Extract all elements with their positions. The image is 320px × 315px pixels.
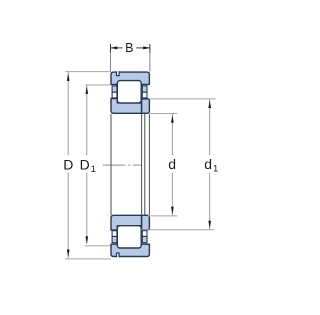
- d1 arrow down: [208, 221, 211, 229]
- wire: inner-ring raceway / loose ring joint edge: [141, 114, 143, 215]
- bore silhouette verticals between sections: [111, 114, 149, 215]
- outer ring notch: [117, 71, 120, 75]
- inner ring (top section): [111, 99, 142, 114]
- d arrow down: [171, 207, 174, 215]
- centerline (bearing axis, dash-dot): [103, 164, 141, 166]
- B tick right: [149, 44, 151, 53]
- d1 extension line top: [150, 98, 215, 100]
- d dimension line: [171, 114, 173, 155]
- svg-text:1: 1: [91, 164, 96, 175]
- B arrow left: [111, 46, 118, 49]
- B extension line right: [149, 53, 151, 72]
- outer ring (top section): [111, 72, 149, 84]
- D extension line bottom: [65, 258, 111, 260]
- d1 arrow up: [208, 101, 211, 109]
- B dimension line: [111, 47, 150, 49]
- svg-text:D: D: [63, 156, 73, 172]
- B arrow right: [143, 46, 150, 49]
- D arrow down: [67, 250, 70, 258]
- d extension line top: [150, 113, 177, 115]
- wire: left face bore edge: [110, 114, 112, 215]
- bottom section = mirror: [111, 215, 149, 257]
- wire: inner-ring recess edge: [144, 114, 146, 215]
- cage left (top section): [112, 86, 117, 92]
- B tick left: [110, 44, 112, 53]
- D1 extension line top: [85, 84, 110, 86]
- d1 dimension line: [209, 99, 211, 155]
- svg-text:D: D: [80, 156, 90, 172]
- svg-text:1: 1: [213, 163, 218, 174]
- roller (top section): [117, 81, 141, 103]
- d extension line bottom: [148, 215, 177, 217]
- svg-text:B: B: [125, 41, 133, 55]
- D1 arrow up: [86, 86, 89, 94]
- D arrow up: [67, 73, 70, 81]
- D dimension line: [67, 72, 69, 155]
- svg-text:d: d: [204, 156, 212, 172]
- cage right (top section): [142, 86, 147, 92]
- d1 extension line bottom: [142, 229, 215, 231]
- B extension line left: [110, 53, 112, 72]
- d arrow up: [171, 115, 174, 123]
- svg-text:d: d: [168, 156, 176, 172]
- D extension line top: [66, 71, 111, 73]
- D1 dimension line: [86, 86, 88, 156]
- wire: right face bore edge: [148, 114, 150, 215]
- loose flange ring (top section): [142, 99, 150, 113]
- D1 extension line bottom: [85, 245, 111, 247]
- D1 arrow down: [86, 236, 89, 244]
